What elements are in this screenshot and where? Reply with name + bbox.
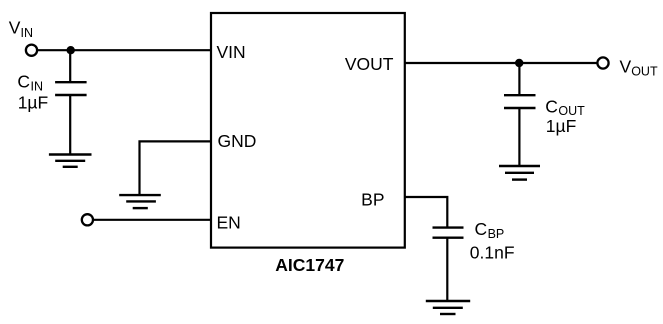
wire COUT top bbox=[518, 63, 520, 95]
svg-text:V: V bbox=[9, 18, 21, 38]
terminal VIN input bbox=[26, 45, 37, 56]
svg-text:C: C bbox=[475, 219, 488, 239]
svg-text:V: V bbox=[620, 57, 632, 77]
pin label VOUT bbox=[345, 54, 394, 74]
svg-text:BP: BP bbox=[488, 227, 505, 241]
junction node VIN net bbox=[67, 46, 75, 54]
ground COUT bbox=[499, 166, 540, 180]
svg-text:OUT: OUT bbox=[631, 65, 658, 79]
wire CBP bottom bbox=[446, 238, 448, 301]
capacitor C3 CBP bbox=[433, 228, 464, 238]
svg-text:1µF: 1µF bbox=[18, 93, 49, 113]
value label 1uF (COUT) bbox=[546, 116, 577, 136]
svg-text:VOUT: VOUT bbox=[345, 54, 394, 74]
capacitor C2 COUT bbox=[504, 95, 536, 108]
node label VIN bbox=[9, 18, 33, 40]
value label 0.1nF bbox=[470, 242, 515, 262]
value label 1uF (CIN) bbox=[18, 93, 49, 113]
wire COUT bottom bbox=[518, 108, 520, 166]
pin label EN bbox=[217, 213, 241, 233]
ground CIN bbox=[49, 155, 92, 167]
value label AIC1747 bbox=[275, 255, 344, 275]
node label VOUT bbox=[620, 57, 658, 79]
wire VOUT net bbox=[405, 62, 598, 64]
pin label VIN bbox=[217, 42, 246, 62]
pin label BP bbox=[361, 189, 384, 209]
svg-text:1µF: 1µF bbox=[546, 116, 577, 136]
terminal EN input bbox=[82, 214, 93, 225]
label CIN bbox=[17, 72, 43, 94]
svg-text:C: C bbox=[545, 96, 558, 116]
wire EN bbox=[93, 219, 211, 221]
wire VIN net bbox=[37, 49, 211, 51]
label CBP bbox=[475, 219, 505, 241]
terminal VOUT output bbox=[597, 57, 608, 68]
capacitor C1 CIN bbox=[55, 82, 87, 95]
op-amp U1 AIC1747 body bbox=[211, 13, 405, 248]
svg-text:AIC1747: AIC1747 bbox=[275, 255, 344, 275]
svg-text:GND: GND bbox=[218, 131, 257, 151]
label COUT bbox=[545, 96, 585, 118]
junction node VOUT net bbox=[515, 59, 523, 67]
wire CIN bottom bbox=[69, 95, 71, 155]
wire GND pin bbox=[140, 141, 212, 195]
svg-text:IN: IN bbox=[21, 26, 34, 40]
svg-text:EN: EN bbox=[217, 213, 241, 233]
svg-text:VIN: VIN bbox=[217, 42, 246, 62]
wire CIN top bbox=[69, 50, 71, 82]
pin label GND bbox=[218, 131, 257, 151]
svg-text:BP: BP bbox=[361, 189, 384, 209]
svg-text:IN: IN bbox=[31, 79, 44, 93]
wire BP bbox=[405, 197, 448, 228]
ground GND pin bbox=[119, 195, 161, 208]
svg-text:0.1nF: 0.1nF bbox=[470, 242, 515, 262]
ground CBP bbox=[426, 301, 470, 314]
svg-text:C: C bbox=[17, 72, 30, 92]
